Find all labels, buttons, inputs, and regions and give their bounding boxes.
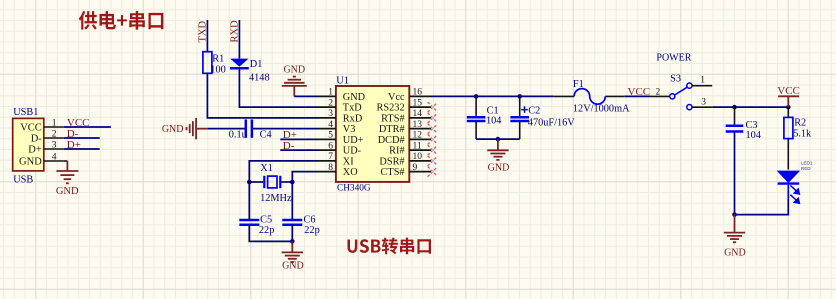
capacitor C1 bbox=[467, 96, 502, 139]
svg-text:USB: USB bbox=[13, 174, 33, 185]
ground GND at C1 C2 bbox=[487, 139, 509, 173]
svg-text:C5: C5 bbox=[260, 215, 272, 226]
svg-text:UD-: UD- bbox=[343, 146, 362, 157]
svg-text:GND: GND bbox=[283, 64, 305, 75]
resistor R1 bbox=[203, 52, 226, 76]
U1 pin 12 DCD# bbox=[378, 131, 438, 146]
svg-text:1: 1 bbox=[328, 88, 333, 98]
wire C3 to ground rail bbox=[734, 132, 736, 215]
USB1 pin 2 bbox=[44, 129, 64, 139]
svg-text:R1: R1 bbox=[212, 53, 224, 64]
wire RXD to D1 bbox=[238, 20, 240, 59]
net label D+ at U1 bbox=[283, 129, 297, 141]
svg-text:CTS#: CTS# bbox=[381, 167, 405, 178]
wire GND to C4 bbox=[208, 128, 245, 130]
crystal X1 bbox=[249, 163, 292, 204]
junction at bottom ground bbox=[732, 212, 737, 217]
net label D+ bbox=[67, 139, 81, 151]
svg-text:R2: R2 bbox=[794, 118, 806, 129]
title text USB转串口 bbox=[348, 238, 432, 255]
wire U1 pin 16 VCC rail bbox=[431, 95, 553, 97]
svg-text:GND: GND bbox=[19, 157, 42, 168]
net label TXD bbox=[198, 21, 209, 43]
svg-text:8: 8 bbox=[328, 163, 333, 173]
svg-text:12MHz: 12MHz bbox=[260, 193, 292, 204]
net label RXD bbox=[230, 20, 241, 43]
svg-text:RTS#: RTS# bbox=[381, 113, 404, 124]
capacitor C6 bbox=[282, 215, 319, 237]
U1 pin 5 UD+ bbox=[318, 131, 364, 146]
svg-text:C4: C4 bbox=[260, 129, 272, 140]
svg-text:CH340G: CH340G bbox=[337, 184, 371, 194]
svg-text:D-: D- bbox=[31, 134, 43, 145]
svg-text:LED1: LED1 bbox=[801, 161, 813, 166]
svg-text:DCD#: DCD# bbox=[378, 135, 405, 146]
net label D- bbox=[67, 128, 79, 140]
junction crystal right bbox=[290, 180, 295, 185]
svg-text:100: 100 bbox=[210, 64, 225, 75]
U1 pin 11 RI# bbox=[389, 141, 437, 156]
diode D1 bbox=[230, 59, 270, 84]
U1 pin 15 RS232 bbox=[377, 98, 438, 113]
wire USB1 pin 4 to ground bbox=[64, 161, 68, 171]
U1 pin 4 V3 bbox=[318, 120, 355, 135]
ground GND at crystal bbox=[282, 241, 304, 271]
svg-text:22p: 22p bbox=[259, 225, 274, 236]
capacitor C2 bbox=[510, 96, 575, 139]
wire C1 C2 to ground bbox=[476, 138, 520, 140]
wire C5 to ground bbox=[249, 225, 292, 242]
ground GND at USB1 bbox=[56, 171, 79, 197]
wire R1 to U1 pin 3 bbox=[207, 73, 318, 118]
svg-text:C6: C6 bbox=[304, 215, 316, 226]
wire U1 pin 8 to crystal right bbox=[292, 172, 318, 220]
svg-text:POWER: POWER bbox=[656, 53, 691, 64]
wire C6 to ground bbox=[291, 225, 293, 242]
svg-text:VCC: VCC bbox=[628, 86, 651, 98]
svg-text:D+: D+ bbox=[28, 145, 42, 156]
svg-text:3: 3 bbox=[52, 140, 57, 150]
junction at C6 ground bbox=[290, 239, 295, 244]
svg-text:3: 3 bbox=[328, 109, 333, 119]
ground GND at U1 pin 1 bbox=[282, 64, 307, 96]
net label VCC at F1 bbox=[628, 86, 651, 98]
power port VCC bbox=[777, 85, 800, 107]
svg-text:5.1k: 5.1k bbox=[793, 128, 812, 139]
svg-text:4: 4 bbox=[52, 152, 57, 162]
svg-text:UD+: UD+ bbox=[343, 135, 364, 146]
svg-text:470uF/16V: 470uF/16V bbox=[528, 117, 575, 128]
svg-text:4: 4 bbox=[328, 120, 333, 130]
svg-text:1: 1 bbox=[700, 76, 705, 86]
svg-text:2: 2 bbox=[52, 129, 57, 139]
svg-text:9: 9 bbox=[413, 163, 418, 173]
wire D- to U1 pin 6 bbox=[280, 149, 318, 151]
svg-text:10: 10 bbox=[413, 152, 423, 162]
wire U1 pin 7 to crystal left bbox=[249, 161, 318, 220]
svg-text:RI#: RI# bbox=[389, 146, 404, 157]
LED LED1 bbox=[777, 161, 813, 204]
svg-text:RED: RED bbox=[801, 166, 811, 171]
svg-text:F1: F1 bbox=[573, 79, 584, 90]
resistor R2 bbox=[784, 107, 812, 139]
capacitor C3 bbox=[726, 107, 761, 141]
svg-text:C2: C2 bbox=[528, 106, 540, 117]
U1 pin 13 DTR# bbox=[379, 120, 437, 135]
svg-text:4148: 4148 bbox=[249, 73, 270, 84]
title text 供电+串口 bbox=[79, 11, 164, 30]
svg-text:D+: D+ bbox=[67, 139, 81, 151]
svg-text:D-: D- bbox=[283, 140, 295, 152]
svg-text:0.1u: 0.1u bbox=[229, 129, 247, 140]
wire D1 to U1 pin 2 bbox=[239, 68, 318, 107]
svg-text:GND: GND bbox=[724, 248, 746, 259]
junction at C1 bbox=[474, 94, 479, 99]
USB1 pin names bbox=[19, 123, 42, 168]
svg-text:RS232: RS232 bbox=[377, 103, 405, 114]
svg-text:104: 104 bbox=[746, 130, 761, 141]
junction at C2 bbox=[517, 94, 522, 99]
U1 pin 2 TxD bbox=[318, 98, 362, 113]
wire F1 to S3 bbox=[625, 95, 670, 97]
op-amp U1 CH340G body bbox=[336, 76, 409, 194]
wire D- from USB1 pin 2 bbox=[64, 137, 100, 139]
svg-text:GND: GND bbox=[343, 92, 366, 103]
fuse F1 bbox=[553, 79, 630, 115]
switch S3 bbox=[656, 53, 692, 110]
svg-text:22p: 22p bbox=[304, 225, 319, 236]
svg-text:XI: XI bbox=[343, 156, 354, 167]
svg-text:16: 16 bbox=[413, 88, 423, 98]
wire D+ from USB1 pin 3 bbox=[64, 148, 100, 150]
capacitor C5 bbox=[239, 215, 274, 237]
svg-text:Vcc: Vcc bbox=[388, 92, 405, 103]
svg-text:104: 104 bbox=[486, 115, 501, 126]
svg-text:D1: D1 bbox=[250, 59, 263, 70]
net label VCC bbox=[67, 117, 90, 129]
svg-text:V3: V3 bbox=[343, 124, 356, 135]
svg-text:11: 11 bbox=[413, 141, 422, 151]
svg-text:12V/1000mA: 12V/1000mA bbox=[573, 104, 630, 115]
net label D- at U1 bbox=[283, 140, 295, 152]
svg-text:TxD: TxD bbox=[343, 103, 362, 114]
S3 pin 3 bbox=[692, 98, 712, 108]
svg-text:GND: GND bbox=[56, 186, 79, 197]
ground GND bottom right bbox=[724, 215, 746, 259]
svg-text:X1: X1 bbox=[260, 163, 273, 174]
svg-text:13: 13 bbox=[413, 120, 423, 130]
S3 pin 1 bbox=[692, 76, 712, 86]
svg-text:GND: GND bbox=[162, 124, 184, 135]
svg-text:DSR#: DSR# bbox=[379, 156, 404, 167]
svg-text:6: 6 bbox=[328, 141, 333, 151]
wire TXD to R1 bbox=[206, 20, 208, 52]
U1 pin 9 CTS# bbox=[381, 163, 438, 178]
svg-text:GND: GND bbox=[282, 261, 304, 272]
svg-text:1: 1 bbox=[52, 118, 57, 128]
wire GND to U1 pin 1 bbox=[294, 95, 318, 97]
U1 pin 16 Vcc bbox=[388, 88, 431, 103]
junction at ground C1 C2 bbox=[496, 137, 501, 142]
svg-text:5: 5 bbox=[328, 131, 333, 141]
U1 pin 10 DSR# bbox=[379, 152, 437, 167]
wire LED to ground rail bbox=[735, 185, 789, 215]
svg-text:USB1: USB1 bbox=[13, 107, 38, 118]
wire VCC from USB1 pin 1 bbox=[64, 126, 111, 128]
U1 pin 8 XO bbox=[318, 163, 358, 178]
U1 pin 6 UD- bbox=[318, 141, 362, 156]
ground GND at C4 bbox=[162, 118, 208, 139]
wire C4 to U1 pin 4 bbox=[253, 128, 318, 130]
USB1 pin 3 bbox=[44, 140, 64, 150]
svg-text:12: 12 bbox=[413, 131, 423, 141]
junction at C3 bbox=[732, 105, 737, 110]
USB1 pin 4 bbox=[44, 152, 64, 162]
wire D+ to U1 pin 5 bbox=[280, 138, 318, 140]
USB1 pin 1 bbox=[44, 118, 64, 128]
wire S3 pin 3 to VCC port bbox=[712, 106, 788, 108]
svg-text:DTR#: DTR# bbox=[379, 124, 405, 135]
connector USB1 body bbox=[13, 107, 44, 185]
svg-text:XO: XO bbox=[343, 167, 358, 178]
svg-text:2: 2 bbox=[656, 88, 661, 98]
U1 pin 3 RxD bbox=[318, 109, 363, 124]
U1 pin 1 GND bbox=[318, 88, 366, 103]
junction at R2 bbox=[786, 105, 791, 110]
svg-text:GND: GND bbox=[488, 162, 510, 173]
svg-text:14: 14 bbox=[413, 109, 423, 119]
svg-text:VCC: VCC bbox=[20, 123, 42, 134]
junction crystal left bbox=[247, 180, 252, 185]
capacitor C4 bbox=[229, 119, 272, 140]
wire R2 to LED bbox=[787, 139, 789, 170]
U1 pin 7 XI bbox=[318, 152, 354, 167]
svg-text:U1: U1 bbox=[336, 76, 349, 87]
svg-text:RxD: RxD bbox=[343, 113, 363, 124]
svg-text:7: 7 bbox=[328, 152, 333, 162]
svg-text:15: 15 bbox=[413, 98, 423, 108]
U1 pin 14 RTS# bbox=[381, 109, 437, 124]
svg-text:2: 2 bbox=[328, 98, 333, 108]
svg-text:S3: S3 bbox=[670, 73, 681, 84]
svg-text:3: 3 bbox=[701, 98, 706, 108]
svg-text:VCC: VCC bbox=[777, 85, 800, 97]
